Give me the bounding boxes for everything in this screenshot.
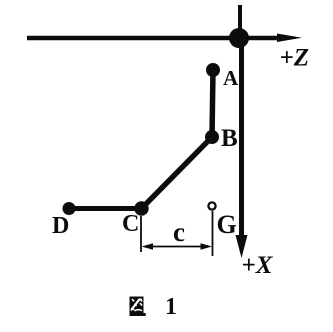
- svg-text:G: G: [217, 210, 237, 239]
- svg-text:+X: +X: [242, 252, 274, 279]
- svg-text:1: 1: [165, 294, 177, 320]
- svg-text:A: A: [223, 66, 239, 90]
- svg-text:+Z: +Z: [280, 45, 310, 72]
- svg-text:B: B: [221, 125, 238, 152]
- svg-text:D: D: [52, 213, 69, 239]
- svg-text:c: c: [173, 217, 185, 247]
- svg-text:C: C: [122, 211, 139, 237]
